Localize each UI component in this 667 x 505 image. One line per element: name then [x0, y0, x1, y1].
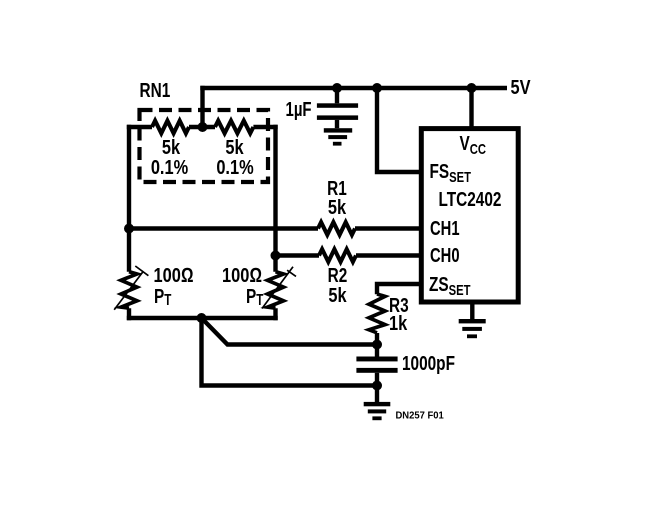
IC U1 LTC2402 box [421, 129, 518, 302]
capacitor C1 1uF bottom plate [317, 115, 358, 120]
wire FSSET drop from rail [377, 88, 421, 172]
svg-text:100Ω: 100Ω [154, 263, 194, 286]
capacitor C2 1000pF bottom plate [356, 368, 397, 373]
wire R1 right segment [355, 226, 421, 230]
svg-text:RN1: RN1 [140, 79, 171, 102]
capacitor C1 1uF stub [335, 88, 339, 103]
resistor network RN1 dashed outline [140, 110, 269, 182]
wire RN1 row mid segment [189, 125, 215, 129]
resistor RN1 left 5k [152, 121, 189, 134]
svg-text:5k: 5k [328, 195, 347, 218]
capacitor C2 1000pF stub [375, 345, 379, 357]
PT left trim arrow [114, 266, 148, 310]
svg-text:1µF: 1µF [286, 98, 312, 121]
resistor R1 5k [318, 222, 355, 235]
svg-text:1000pF: 1000pF [402, 352, 455, 375]
node 1uF rail junction [332, 83, 342, 93]
wire ZSSET to R3 [377, 284, 421, 294]
svg-text:5k: 5k [328, 283, 347, 306]
wire RN1 row left segment [127, 125, 152, 129]
capacitor C2 1000pF top plate [356, 357, 397, 362]
node FSSET rail junction [372, 83, 382, 93]
svg-text:1k: 1k [389, 311, 408, 334]
ground under 1000pF [364, 402, 391, 420]
wire bridge bottom to R3 node diagonal [202, 318, 378, 345]
wire top 5V rail [200, 86, 507, 90]
svg-text:CH1: CH1 [430, 217, 460, 240]
node R1 tap on left vertical [124, 224, 134, 234]
svg-text:0.1%: 0.1% [151, 155, 188, 178]
wire bridge bottom to cap bottom [202, 318, 378, 386]
resistor PT left 100ohm [121, 272, 137, 309]
ground under IC [459, 319, 486, 338]
wire VCC drop from rail [469, 88, 473, 129]
svg-text:CH0: CH0 [430, 244, 460, 267]
wire left bridge vertical [127, 125, 131, 320]
svg-text:DN257 F01: DN257 F01 [396, 410, 445, 422]
wire R1 to CH1 [129, 226, 318, 230]
wire RN1 center tap vertical [200, 86, 204, 127]
wire bridge bottom [127, 316, 278, 320]
wire R3 to node [375, 333, 379, 345]
node VCC rail junction [467, 83, 477, 93]
capacitor C1 stub to ground [335, 120, 339, 128]
svg-text:0.1%: 0.1% [216, 155, 253, 178]
wire RN1 row right segment [253, 125, 277, 129]
resistor PT right 100ohm [268, 272, 284, 309]
wire cap bottom ground stub [375, 386, 379, 403]
wire R2 to CH0 [276, 253, 320, 257]
svg-text:5V: 5V [511, 75, 532, 98]
node cap bottom [372, 381, 382, 391]
resistor R2 5k [319, 249, 356, 262]
resistor R3 1k [369, 294, 385, 333]
svg-text:LTC2402: LTC2402 [439, 188, 502, 211]
wire IC ground stub [470, 302, 474, 319]
ground under 1uF [324, 128, 352, 145]
resistor RN1 right 5k [215, 121, 253, 134]
node RN1 center tap [198, 122, 208, 132]
capacitor C2 stub to node [375, 373, 379, 386]
PT right trim arrow [262, 267, 296, 309]
node R2 tap on right vertical [271, 251, 281, 261]
capacitor C1 1uF top plate [317, 103, 358, 108]
wire right bridge vertical [273, 125, 277, 320]
node R3 bottom [372, 340, 382, 350]
svg-text:100Ω: 100Ω [222, 263, 262, 286]
node bridge bottom [197, 313, 207, 323]
wire R2 right segment [356, 253, 421, 257]
